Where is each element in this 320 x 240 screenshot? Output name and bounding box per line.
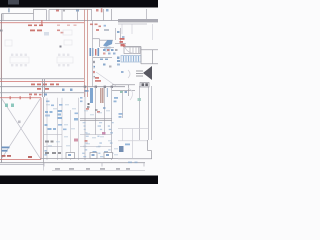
red tint on left wall bbox=[0, 23, 2, 82]
top band room dividers bbox=[3, 10, 92, 21]
paper background bbox=[0, 0, 158, 184]
red wall vertical pair (big room right) bbox=[85, 10, 88, 98]
blue text right bottom bbox=[125, 144, 130, 146]
top letterbox bar bbox=[0, 0, 158, 8]
faint verticals below band right bbox=[122, 24, 153, 40]
extra blue specks mid column bbox=[46, 97, 83, 130]
cone faint arcs bbox=[128, 70, 130, 78]
red tick above band x101 bbox=[101, 8, 103, 12]
bottom dimension line bbox=[52, 170, 145, 172]
bottom wall line bbox=[0, 162, 145, 164]
bottom-left room red outline bbox=[0, 98, 41, 160]
riser verticals gray bbox=[85, 87, 112, 160]
top dimension specks bbox=[56, 9, 109, 12]
red-pink speck left bbox=[74, 139, 78, 142]
furniture dot bbox=[60, 46, 62, 48]
wall below ramp bbox=[100, 47, 114, 49]
maroon riser bar bbox=[100, 88, 101, 103]
blue dot x104 y25 bbox=[104, 25, 106, 27]
blue specks bottom right bbox=[128, 162, 138, 164]
door arc near stairs bbox=[125, 48, 133, 54]
red annotation text in big room bbox=[30, 30, 64, 34]
blue dashes under line bbox=[100, 59, 108, 61]
red speck mid bbox=[102, 132, 106, 135]
annotation cluster mid (y48-58) bbox=[90, 48, 118, 56]
wall verticals right of blue patch bbox=[115, 28, 126, 44]
corridor wall y92 bbox=[0, 92, 84, 94]
gray dot in room bbox=[18, 121, 21, 124]
top bar smudge bbox=[8, 0, 19, 5]
annotation text columns bottom-center bbox=[82, 122, 114, 157]
stairs box with treads bbox=[124, 47, 140, 54]
mid-right walls y84-90 bbox=[112, 85, 135, 96]
faint chairs bbox=[11, 54, 69, 67]
blue tick above band bbox=[8, 8, 10, 12]
speaker cone symbol bbox=[143, 66, 152, 80]
wall: top inner line full width bbox=[0, 20, 118, 22]
annotation line under cluster bbox=[93, 57, 112, 59]
wall corner near stair (x99) bbox=[93, 39, 114, 47]
red specks mid rooms bbox=[85, 108, 101, 142]
bottom boxes blue specks bbox=[68, 154, 109, 156]
blue ramp wedge bbox=[103, 40, 113, 47]
faint room lines bottom-center bbox=[44, 135, 112, 147]
blue riser bar bbox=[90, 88, 93, 103]
top band vertical x146 bbox=[146, 9, 148, 19]
dark blue blob bottom-left-of-right bbox=[119, 146, 124, 152]
red ticks on room top bbox=[10, 96, 31, 99]
room diagonals X bbox=[2, 99, 40, 158]
wall junction blocks bbox=[84, 86, 113, 88]
red text row under corridor bbox=[31, 84, 59, 90]
blue specks right wall bbox=[119, 113, 123, 118]
left outer wall bbox=[1, 14, 3, 164]
blue text bottom-left bbox=[2, 147, 10, 152]
thin blue strip right of maroon bbox=[107, 88, 108, 97]
leader dotted vertical bbox=[93, 60, 95, 79]
bottom ground line between boxes bbox=[40, 158, 118, 160]
corridor wall y78 bbox=[0, 78, 84, 80]
wall: top outer line left bbox=[2, 13, 34, 15]
blue dots corridor bbox=[62, 89, 73, 92]
red tick on band x41 bbox=[41, 20, 42, 26]
lower-right room outlines bbox=[118, 129, 148, 159]
cone leader lines bbox=[136, 71, 143, 76]
blue ramp wedge light tail bbox=[104, 47, 111, 50]
bottom-right outline steps bbox=[118, 140, 152, 159]
mid-right room wall y118 bbox=[80, 119, 112, 121]
red annotation block right x120 bbox=[120, 38, 125, 46]
dark specks bottom corridor bbox=[45, 141, 61, 155]
leader dots column bbox=[93, 60, 124, 78]
right shaft walls bbox=[123, 86, 152, 140]
corridor wall y86 bbox=[0, 86, 125, 88]
bottom-left room gray outer line bbox=[43, 97, 45, 163]
faint blue-gray smudge bbox=[44, 32, 49, 36]
blue text left of risers bbox=[85, 90, 89, 92]
diagonal leader line bbox=[96, 72, 116, 86]
dark dot left wall bbox=[0, 30, 3, 32]
red corridor line y81 bbox=[0, 81, 84, 83]
blue hatched box bbox=[117, 56, 141, 63]
annotation specks upper mid-right bbox=[96, 29, 126, 47]
blue specks near x48 y128 bbox=[45, 124, 57, 130]
gray corridor vertical x92 bbox=[92, 21, 94, 88]
red text above corridor right bbox=[95, 77, 101, 82]
dimension text specks bbox=[55, 168, 130, 170]
red text bottom-left bbox=[2, 155, 33, 158]
wall: top-right thick band bbox=[118, 19, 158, 22]
specks in mid-right room bbox=[87, 103, 106, 111]
blue specks lower rooms bbox=[93, 97, 119, 153]
wall right corridor bbox=[126, 47, 159, 65]
top band vertical x111 bbox=[111, 9, 113, 21]
small box at shaft top bbox=[140, 83, 149, 88]
red text under band right bbox=[90, 24, 101, 28]
red tick text under red line bbox=[28, 25, 77, 27]
wall: top-right thin line bbox=[118, 23, 147, 25]
green speck right bbox=[138, 98, 142, 101]
colored specks x120 y90 bbox=[120, 91, 127, 93]
red line: big room top bbox=[0, 22, 84, 24]
blue annotation blob center bbox=[45, 110, 78, 121]
bottom boxes row bbox=[66, 153, 113, 159]
corridor divider x42 bbox=[43, 79, 45, 97]
red specks above room bbox=[29, 94, 42, 96]
wall: top outer line stepped up bbox=[34, 10, 93, 14]
bottom letterbox bar bbox=[0, 176, 158, 185]
corridor verticals mid-bottom bbox=[47, 98, 79, 160]
faint furniture: conference tables bbox=[5, 30, 73, 63]
green symbols in room bbox=[5, 104, 14, 108]
faint annotation noise bottom-center bbox=[46, 104, 118, 155]
top band vertical x103 bbox=[103, 9, 105, 21]
blue speck above room bbox=[44, 94, 47, 96]
faint door arc right bbox=[128, 88, 133, 100]
blue specks along x44 bbox=[45, 150, 48, 156]
